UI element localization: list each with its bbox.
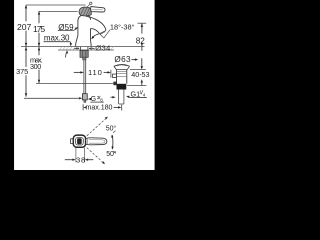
svg-text:110: 110 xyxy=(88,68,102,77)
cartridge center xyxy=(77,138,82,144)
spout underside curve xyxy=(91,29,100,34)
svg-text:Ø63: Ø63 xyxy=(114,55,131,64)
40-53 dimension xyxy=(141,58,143,67)
svg-text:50°: 50° xyxy=(106,150,117,158)
pop-up waste body xyxy=(116,70,118,84)
Ø34 arrows at shank xyxy=(74,47,77,49)
deck-bottom up arrow xyxy=(66,50,68,53)
faucet body right edge with base flare xyxy=(90,28,93,46)
svg-text:4: 4 xyxy=(143,93,146,98)
deck top line xyxy=(21,46,145,48)
body extension lines down xyxy=(75,148,77,163)
svg-text:18°-38°: 18°-38° xyxy=(110,23,135,32)
svg-text:1: 1 xyxy=(139,89,142,94)
G 1 1/4 thread (dark) xyxy=(117,84,127,90)
supply hose xyxy=(83,57,85,94)
dimension line 175/max300 at x=39 xyxy=(38,11,40,23)
svg-text:38: 38 xyxy=(76,156,85,165)
top view lever xyxy=(86,138,107,145)
rod lug on drain body xyxy=(113,74,117,77)
svg-text:175: 175 xyxy=(33,24,45,34)
top view body ring xyxy=(73,135,85,147)
82 dimension xyxy=(138,22,147,24)
extension line top (207 level) xyxy=(26,4,86,6)
left black bar xyxy=(0,0,14,170)
water direction arrow xyxy=(92,34,98,38)
G3/8 leader arrow xyxy=(88,98,91,100)
svg-text:40-53: 40-53 xyxy=(131,70,149,79)
110 dimension xyxy=(74,71,81,73)
svg-text:max.180: max.180 xyxy=(86,104,113,112)
deck hatching xyxy=(59,47,114,50)
50° dashed line lower xyxy=(87,148,105,164)
375 bottom extension line with arrow to nut xyxy=(24,97,80,99)
rod clevis xyxy=(113,82,117,86)
spout outer curve xyxy=(86,16,106,30)
handle base xyxy=(79,7,91,16)
svg-text:207: 207 xyxy=(17,22,32,32)
drain leader arrow at tailpipe left xyxy=(110,96,113,98)
38 dimension arrows xyxy=(65,159,73,161)
G3/8 nut at hose end xyxy=(82,94,87,100)
white sheet xyxy=(0,0,170,170)
max.180 dimension xyxy=(82,104,84,110)
faucet cap xyxy=(78,15,91,20)
rotation arc with arrows xyxy=(111,135,114,149)
50° dashed line upper xyxy=(87,117,108,136)
lever arm xyxy=(90,7,105,13)
18-38 leader V xyxy=(100,30,110,38)
pop-up waste flange xyxy=(114,65,130,67)
svg-text:82: 82 xyxy=(136,36,145,45)
small circle detail above lever xyxy=(90,2,92,4)
svg-text:50°: 50° xyxy=(106,124,117,132)
dimension line 207/375 at x=26 xyxy=(25,5,27,21)
right black bar xyxy=(155,0,170,170)
tailpipe xyxy=(118,90,120,105)
spout stub left xyxy=(71,139,74,144)
deck bottom line xyxy=(58,49,114,51)
faucet body left edge with base flare xyxy=(76,20,78,46)
svg-text:Ø34: Ø34 xyxy=(95,43,110,52)
mounting nut xyxy=(80,50,88,57)
shank through deck xyxy=(79,47,81,50)
svg-text:375: 375 xyxy=(16,67,28,76)
aerator face xyxy=(99,31,106,34)
hose-end extension line / pop-up rod xyxy=(36,83,113,85)
svg-text:max.30: max.30 xyxy=(44,34,70,43)
svg-text:300: 300 xyxy=(30,62,41,71)
extension line 175 level xyxy=(39,11,78,13)
